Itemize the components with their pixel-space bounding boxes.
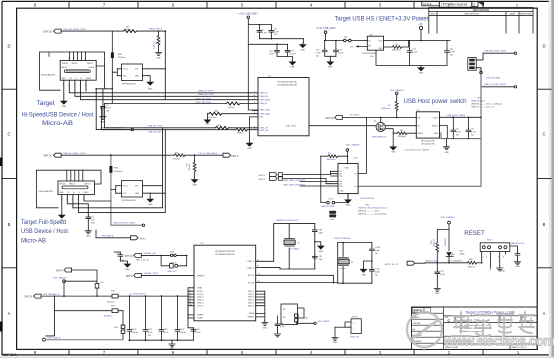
svg-text:0.01uF: 0.01uF: [180, 332, 187, 334]
svg-text:LPC54606J512ET180: LPC54606J512ET180: [277, 82, 298, 84]
capacitor C86: [312, 228, 323, 234]
svg-text:SCALE: SCALE: [423, 2, 432, 6]
wires U29 inputs from SHT4: [283, 171, 331, 186]
svg-text:C11: C11: [450, 48, 453, 50]
svg-text:GND: GND: [434, 133, 439, 135]
ESD protection U1: [112, 64, 148, 86]
ground: [155, 51, 161, 60]
svg-text:0ohms: 0ohms: [228, 107, 234, 109]
capacitor C113: [515, 252, 520, 260]
svg-text:2: 2: [498, 257, 499, 259]
ground (C4): [85, 229, 91, 238]
svg-text:PRTR5V0U2X: PRTR5V0U2X: [122, 84, 137, 86]
svg-text:+3.3V_USB_ENET: +3.3V_USB_ENET: [238, 14, 258, 16]
ground (switch): [443, 139, 449, 154]
svg-text:SHLD3: SHLD3: [72, 63, 78, 65]
power terminal VDD_TARGET: [53, 276, 68, 296]
svg-text:USB Host power switch: USB Host power switch: [404, 98, 467, 105]
off-sheet connector SHT 10 (HS VBUS): [43, 29, 61, 33]
svg-text:NX3L2267GM: NX3L2267GM: [360, 198, 373, 200]
wire crystal Y2 loop: [262, 224, 315, 269]
svg-text:0.1uF: 0.1uF: [196, 332, 202, 334]
svg-text:GND: GND: [515, 266, 520, 268]
capacitor C10: [269, 49, 279, 56]
svg-text:USB0_DM_TRGT: USB0_DM_TRGT: [198, 94, 215, 96]
svg-text:GND: GND: [148, 204, 153, 206]
svg-text:USB0 HS ———— short: USB0 HS ———— short: [358, 210, 379, 213]
svg-text:10v: 10v: [450, 54, 453, 56]
svg-text:Micro-AB: Micro-AB: [42, 120, 73, 127]
svg-text:VREFP: VREFP: [197, 315, 204, 317]
svg-text:0.1uF: 0.1uF: [280, 326, 286, 328]
svg-text:GND: GND: [148, 89, 153, 91]
node USB_FS_HOST_VBUS terminal: [481, 84, 517, 88]
svg-text:CTH: CTH: [440, 271, 445, 273]
svg-text:600ohms: 600ohms: [107, 301, 115, 303]
wire reset into U5: [141, 274, 194, 276]
svg-text:SHT 4: SHT 4: [56, 270, 63, 273]
micro-AB connector J1 outer shield wires: [40, 31, 113, 103]
decoupling caps row: [130, 296, 194, 340]
svg-text:SHLD2: SHLD2: [85, 184, 91, 186]
svg-text:C: C: [542, 132, 545, 137]
resistor R8 100Kohms pullup: [381, 101, 398, 117]
svg-text:3: 3: [503, 257, 504, 259]
ground (SW1 pin3): [497, 266, 506, 273]
svg-text:100Kohms: 100Kohms: [327, 159, 336, 161]
wire 5V rail: [326, 40, 451, 42]
svg-text:5x_TRGT_VDDX: 5x_TRGT_VDDX: [130, 294, 146, 296]
svg-text:FS_TO_HSD_VBUS: FS_TO_HSD_VBUS: [199, 153, 218, 155]
svg-text:47Kohms: 47Kohms: [398, 136, 406, 138]
svg-text:SHT 10: SHT 10: [43, 30, 52, 34]
svg-text:5: 5: [254, 102, 255, 104]
capacitor C11: [445, 41, 456, 66]
svg-text:10v: 10v: [316, 55, 319, 57]
ferrite bead FB3: [109, 166, 122, 173]
svg-text:R95: R95: [431, 241, 433, 244]
svg-text:HDR-1X3 SMD: HDR-1X3 SMD: [487, 78, 502, 80]
svg-text:GND: GND: [62, 78, 67, 80]
svg-text:GND: GND: [444, 152, 449, 154]
ground (Y2): [315, 242, 324, 253]
wire JP10 loop: [321, 156, 327, 202]
svg-text:100Kohms: 100Kohms: [392, 50, 401, 52]
svg-text:APPROVED: APPROVED: [520, 12, 532, 15]
pseudo chinese glyphs: [452, 312, 534, 336]
svg-text:SHLD3: SHLD3: [69, 184, 75, 186]
capacitor C9: [466, 117, 477, 138]
svg-text:SHT 3, 10, 12: SHT 3, 10, 12: [385, 264, 399, 266]
wire SW1 to cap: [510, 246, 518, 252]
svg-text:GND: GND: [391, 151, 396, 153]
svg-text:3?1: 3?1: [340, 176, 343, 178]
svg-text:D+: D+: [73, 192, 75, 194]
resistor R19 100Kohms: [321, 153, 348, 161]
wire USB1 pair w/ series resistor: [86, 89, 258, 104]
svg-text:ADC_VREFP: ADC_VREFP: [318, 320, 331, 323]
svg-text:VDD_TARGET: VDD_TARGET: [346, 143, 361, 146]
resistor R6 470ohm: [173, 152, 185, 160]
svg-text:nRESET_TRGT: nRESET_TRGT: [144, 273, 159, 275]
ground (J2 shell): [59, 214, 65, 223]
connector J1 pin wires: [64, 80, 258, 129]
svg-text:VCC1: VCC1: [123, 69, 128, 71]
svg-text:ZX62D-AB-5P8: ZX62D-AB-5P8: [41, 74, 56, 77]
resistor R29: [215, 125, 228, 129]
off-sheet connector SHT 3,10,12 (reset out): [385, 261, 426, 266]
svg-text:Target USB HS / ENET+3.3V Powe: Target USB HS / ENET+3.3V Power: [335, 16, 430, 23]
svg-text:USB0_DM: USB0_DM: [260, 96, 269, 98]
svg-text:0.1uF: 0.1uF: [440, 274, 446, 276]
ground (U29): [345, 198, 351, 206]
svg-text:220ohms: 220ohms: [114, 171, 123, 173]
svg-text:1: 1: [353, 323, 354, 325]
capacitor C6: [269, 29, 280, 37]
svg-text:470ohm: 470ohm: [124, 29, 132, 31]
svg-text:FS_USB0_ID: FS_USB0_ID: [102, 236, 115, 238]
svg-text:VBUS_TRGT: VBUS_TRGT: [149, 28, 163, 30]
off-sheet connector SHT 4 (x2): [259, 173, 283, 177]
svg-text:VDD: VDD: [345, 167, 350, 169]
svg-text:0.1uF: 0.1uF: [339, 52, 345, 54]
svg-text:VSS_1: VSS_1: [248, 291, 254, 293]
wire JP9 pin1 to HS VBUS: [476, 53, 483, 60]
power terminal +3.3V_USB_ENET (regulator input): [316, 28, 336, 40]
wires USB0 DP/DM label rows: [196, 91, 215, 105]
ferrite bead FB4: [107, 291, 118, 304]
svg-text:9SF12-225R08-A: 9SF12-225R08-A: [334, 237, 351, 240]
node labels FS pair: [148, 126, 164, 134]
resistor R7: [384, 41, 409, 52]
svg-text:4: 4: [486, 257, 487, 259]
transistor Q4 BSS138PK-215: [373, 117, 394, 138]
wire ground return: [376, 50, 447, 65]
svg-text:4.7uF: 4.7uF: [274, 31, 280, 33]
svg-text:VSSA: VSSA: [249, 312, 255, 315]
svg-text:Target Full-Speed: Target Full-Speed: [21, 219, 67, 226]
wire VOUT to JP9 bus: [440, 117, 482, 138]
ground (C113): [514, 260, 520, 268]
svg-text:C6: C6: [274, 29, 276, 31]
svg-text:GND: GND: [340, 191, 345, 193]
svg-text:DESCRIPTION: DESCRIPTION: [464, 13, 479, 15]
ground (Q4 source): [390, 133, 396, 153]
crystal Y1: [338, 258, 354, 270]
svg-text:VDD_2: VDD_2: [197, 294, 203, 296]
svg-text:(Red): (Red): [460, 253, 465, 255]
svg-text:8: 8: [85, 58, 86, 60]
svg-text:RTCX0: RTCX0: [248, 282, 254, 284]
svg-text:USB_FS_VBUS_TRGT: USB_FS_VBUS_TRGT: [63, 153, 87, 155]
jumper pads: [329, 211, 336, 221]
svg-text:VOUT: VOUT: [433, 117, 439, 119]
svg-text:8: 8: [254, 95, 255, 97]
svg-text:SHLD1: SHLD1: [89, 67, 95, 69]
svg-text:VCC1: VCC1: [123, 186, 128, 188]
jumper JP7: [160, 255, 186, 273]
svg-text:VREFN: VREFN: [247, 317, 254, 319]
node USB_FS_HOST_VBUS terminal: [113, 223, 144, 227]
svg-text:SHT 10: SHT 10: [43, 154, 52, 158]
registration mark left edge upper: [0, 158, 3, 167]
power terminal VDD_TARGET: [346, 143, 361, 163]
svg-text:XTAL_2: XTAL_2: [247, 266, 254, 269]
svg-text:VSS_3: VSS_3: [248, 297, 254, 299]
connector J1 body: [41, 56, 96, 87]
svg-text:REVISIONS: REVISIONS: [473, 8, 489, 12]
zone ticks left: [2, 89, 17, 268]
wire switch gnd rail: [441, 133, 481, 139]
jumper JU23: [114, 311, 125, 340]
registration mark left edge lower: [0, 322, 3, 332]
svg-text:0.1uF: 0.1uF: [164, 332, 170, 334]
svg-text:16v: 16v: [148, 335, 151, 337]
wire JP9 common down to switch output: [358, 74, 481, 186]
capacitor C83: [191, 328, 201, 334]
svg-text:C92: C92: [339, 49, 342, 51]
svg-text:USB1_VBUS: USB1_VBUS: [285, 125, 296, 127]
crystal Y2: [284, 239, 300, 251]
regulator U8: [362, 34, 384, 57]
svg-text:470ohm: 470ohm: [173, 159, 181, 161]
svg-text:USB1_VBUS_TRGT(3V3): USB1_VBUS_TRGT(3V3): [283, 185, 305, 187]
svg-text:JP9: JP9: [478, 98, 481, 100]
svg-text:VDD_6: VDD_6: [197, 305, 203, 307]
svg-text:TLV70245DBVR: TLV70245DBVR: [362, 53, 378, 55]
resistor R11 47Kohms: [393, 130, 416, 138]
capacitor C87: [312, 255, 323, 261]
resistor R78 33ohm: [236, 128, 248, 134]
ferrite bead FB2: [111, 52, 126, 59]
svg-text:USB0_IDVAL: USB0_IDVAL: [260, 112, 271, 115]
svg-text:USB_FS_HOST_VBUS: USB_FS_HOST_VBUS: [113, 223, 135, 225]
svg-text:1: 1: [483, 257, 484, 259]
svg-text:VDD_TARGET_IN: VDD_TARGET_IN: [43, 293, 60, 296]
scan edge bottom gray: [0, 357, 554, 358]
off-sheet connector SHT 10 (reset in): [124, 252, 186, 261]
svg-text:BSS138PK-215: BSS138PK-215: [373, 136, 388, 138]
capacitor C2: [101, 105, 112, 115]
capacitor C5: [257, 29, 268, 35]
svg-text:ZX62D-AB-5P8: ZX62D-AB-5P8: [39, 190, 54, 193]
resistor R95 100Kohm: [431, 238, 439, 262]
JP9 note text: [471, 98, 502, 109]
svg-text:VBULK: VBULK: [432, 126, 439, 128]
svg-text:4.7uF: 4.7uF: [471, 132, 477, 134]
svg-text:I/O1: I/O1: [135, 69, 138, 71]
capacitor CTH: [435, 262, 446, 286]
svg-text:10v: 10v: [274, 34, 277, 36]
svg-text:USB0_DP: USB0_DP: [260, 93, 269, 95]
power terminal +3.3V_USB_ENET: [238, 14, 258, 110]
capacitor C8: [451, 117, 462, 138]
svg-text:GND: GND: [500, 271, 505, 273]
wire U3 to switch IN / Q4 gate: [309, 125, 416, 127]
svg-text:GND: GND: [86, 235, 91, 237]
svg-text:USB1_DM: USB1_DM: [260, 130, 269, 132]
svg-text:LTST-C190KFKT-1: LTST-C190KFKT-1: [448, 261, 463, 263]
svg-text:SHT 11: SHT 11: [24, 296, 33, 299]
svg-text:USBb Host Power Mux(2:1 Select: USBb Host Power Mux(2:1 Select): [358, 207, 387, 210]
svg-text:VDD_TARGET: VDD_TARGET: [441, 216, 456, 219]
capacitor C92: [334, 41, 345, 57]
svg-text:6: 6: [254, 98, 255, 100]
capacitor C100: [114, 252, 130, 271]
svg-text:SHLD5: SHLD5: [62, 67, 68, 69]
svg-text:C104: C104: [132, 329, 137, 331]
svg-text:NXP B.V.: NXP B.V.: [3, 353, 17, 357]
svg-text:2: 2: [489, 270, 490, 272]
svg-text:0.1uF: 0.1uF: [412, 51, 418, 53]
svg-text:SHT 6: SHT 6: [126, 275, 133, 278]
svg-text:A: A: [8, 311, 11, 316]
wire FS DP/DM pair to U3: [102, 104, 259, 130]
svg-text:GND: GND: [419, 73, 424, 75]
svg-text:C: C: [7, 132, 10, 137]
resistor R2: [124, 27, 137, 33]
jumper JU20: [295, 314, 314, 323]
MCU U3: [253, 76, 310, 136]
capacitor C113b: [274, 316, 285, 337]
svg-text:REV: REV: [431, 13, 436, 15]
node USB_HS_HOST_VBUS terminal: [100, 127, 133, 131]
svg-text:VDD_5: VDD_5: [197, 303, 203, 305]
svg-text:Target: Target: [37, 100, 55, 107]
power terminal VDD_TARGET: [437, 216, 455, 251]
off-sheet connector SHT 11: [24, 293, 60, 299]
off-sheet connector SHT 10 +5V: [325, 114, 416, 120]
wire FS_USB0_ID: [96, 230, 146, 240]
jumper JP10: [321, 194, 348, 208]
capacitor C91: [316, 41, 336, 58]
svg-text:R4: R4: [187, 164, 189, 166]
svg-text:100Kohms: 100Kohms: [381, 108, 390, 110]
svg-text:GND: GND: [156, 58, 161, 60]
svg-text:600ohms: 600ohms: [104, 315, 112, 317]
svg-text:nRESET_A-F: nRESET_A-F: [144, 252, 157, 255]
svg-text:C9: C9: [471, 129, 473, 131]
svg-text:SHT 4: SHT 4: [140, 238, 147, 240]
svg-text:GND: GND: [192, 185, 197, 187]
svg-text:KMR221G LFS: KMR221G LFS: [511, 243, 525, 245]
capacitor C4: [86, 215, 96, 229]
svg-text:I/O1: I/O1: [135, 186, 138, 188]
svg-text:D15: D15: [460, 250, 463, 252]
ground (U1): [147, 76, 153, 91]
svg-text:C91: C91: [316, 49, 319, 51]
svg-text:J2: J2: [48, 56, 50, 58]
svg-text:13: 13: [73, 58, 75, 60]
svg-text:0.01uF: 0.01uF: [290, 53, 297, 55]
U5 pin stubs: [188, 261, 265, 320]
zone ticks right: [537, 89, 551, 268]
capacitor C78: [159, 328, 169, 334]
off-sheet connector SHT 3: [223, 153, 239, 158]
svg-text:LPC54608J512ET180: LPC54608J512ET180: [277, 85, 298, 87]
wire U1 to VBUS rail: [148, 68, 165, 70]
capacitor C112: [143, 328, 153, 337]
svg-text:P3V3_USB_IN: P3V3_USB_IN: [47, 338, 61, 340]
svg-text:USB Device / Host: USB Device / Host: [21, 228, 68, 235]
wire to R6: [111, 154, 223, 156]
svg-text:short: short: [330, 218, 334, 221]
svg-text:4: 4: [254, 129, 255, 131]
svg-text:C79: C79: [290, 50, 293, 52]
svg-text:JP5 IN: JP5 IN: [352, 316, 359, 318]
svg-text:VDD_1: VDD_1: [197, 291, 203, 293]
connector J2 body: [39, 181, 95, 200]
svg-text:100Kohm: 100Kohm: [434, 238, 436, 247]
svg-text:C86: C86: [319, 229, 322, 231]
svg-text:10v: 10v: [456, 135, 459, 137]
svg-text:C107: C107: [180, 329, 185, 331]
svg-text:4.7uF: 4.7uF: [316, 52, 322, 54]
push button SW1: [480, 240, 510, 272]
svg-text:Micro-AB: Micro-AB: [21, 237, 46, 244]
ground (JP5): [332, 336, 338, 345]
svg-text:USB1 HS ———— open (default): USB1 HS ———— open (default): [358, 213, 387, 216]
switch U7 MIC2025: [404, 110, 439, 151]
svg-text:RESET: RESET: [464, 231, 485, 237]
power terminal VDD_TARGET (switch enable): [390, 89, 405, 101]
header JP9: [468, 58, 501, 80]
REVISIONS table: [429, 8, 533, 34]
wire crystal Y1 loop: [262, 243, 372, 284]
capacitor C107: [175, 328, 186, 334]
svg-text:USB_HS_HOST_VBUS: USB_HS_HOST_VBUS: [484, 51, 507, 53]
svg-text:GND: GND: [263, 328, 268, 330]
svg-text:0.01uF: 0.01uF: [132, 332, 139, 334]
off-sheet connector SHT 10 (FS VBUS): [43, 153, 61, 158]
svg-text:R11: R11: [400, 130, 403, 132]
wire FS D+/D- loop: [73, 128, 165, 213]
svg-text:4: 4: [81, 58, 82, 60]
svg-text:USB0 HS ——— short 1 - 2 (defau: USB0 HS ——— short 1 - 2 (default): [471, 103, 502, 106]
svg-text:GND: GND: [361, 275, 366, 277]
svg-text:+5V_HOST: +5V_HOST: [349, 114, 360, 116]
svg-text:VBUS: VBUS: [86, 78, 92, 80]
scan edge right gray band: [551, 0, 554, 358]
analog switch U29 NX3L2267GM: [331, 117, 367, 198]
ground (CTH): [434, 287, 440, 296]
svg-text:C12: C12: [412, 48, 415, 50]
svg-text:SHT 2, 10, 12: SHT 2, 10, 12: [136, 259, 150, 261]
ground (Y1): [361, 261, 372, 277]
svg-text:SHLD4: SHLD4: [60, 184, 66, 186]
svg-text:A: A: [543, 311, 546, 316]
jumper J32: [344, 37, 352, 42]
svg-text:+5V: +5V: [419, 24, 424, 26]
svg-text:VSS_4: VSS_4: [248, 300, 254, 302]
zone ticks top: [69, 1, 483, 8]
ground: [327, 56, 333, 68]
wire JP9 pin3 to FS VBUS: [476, 68, 481, 87]
NC stub: [351, 46, 368, 49]
capacitor C104: [127, 328, 138, 334]
ground (U5 VSS): [262, 321, 268, 330]
filter box L2: [281, 304, 304, 325]
off-sheet connector SHT 6: [126, 273, 159, 278]
svg-text:12.7Kohm: 12.7Kohm: [207, 117, 216, 119]
wire VSS to GND: [247, 117, 259, 150]
ground: [290, 60, 296, 68]
svg-text:3?1: 3?1: [340, 186, 343, 188]
zone ticks bottom: [69, 349, 483, 355]
wire USB_FS_VBUS_TRGT: [61, 154, 111, 156]
svg-text:2.2uF: 2.2uF: [106, 108, 112, 110]
svg-text:GND: GND: [62, 106, 67, 108]
